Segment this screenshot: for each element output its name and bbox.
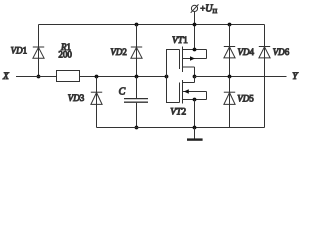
svg-text:200: 200 bbox=[58, 50, 72, 60]
wire: VD5 branch vertical bbox=[229, 77, 231, 128]
wire: power feed vertical to VT1 drain bbox=[194, 12, 196, 50]
transistor VT1 bbox=[180, 47, 207, 77]
svg-text:+UП: +UП bbox=[200, 3, 217, 15]
svg-text:C: C bbox=[119, 86, 126, 97]
wire: bottom rail bbox=[97, 127, 265, 129]
node: gate drive junction on X line bbox=[165, 75, 169, 79]
wire: Y output line bbox=[195, 76, 287, 78]
svg-text:VD6: VD6 bbox=[273, 47, 290, 57]
wire: VD4 branch vertical bbox=[229, 25, 231, 77]
power terminal +Up bbox=[191, 4, 199, 12]
node: X input junction bbox=[37, 75, 41, 79]
node: VT1 source / VT2 drain / Y junction bbox=[193, 75, 197, 79]
wire: X line to capacitor top plate bbox=[136, 77, 138, 99]
svg-text:VD3: VD3 bbox=[68, 93, 85, 103]
svg-text:X: X bbox=[2, 72, 10, 82]
diode VD5 bbox=[224, 92, 235, 104]
node: VT2 source junction bbox=[193, 98, 197, 102]
node: VD3 junction bbox=[95, 75, 99, 79]
node: ground junction bbox=[193, 126, 197, 130]
wire: VD2 branch vertical bbox=[136, 25, 138, 77]
diode VD2 bbox=[131, 47, 142, 58]
svg-text:VT2: VT2 bbox=[170, 108, 186, 118]
svg-text:VT1: VT1 bbox=[172, 36, 188, 46]
diode VD1 bbox=[33, 47, 44, 58]
node: VD4/VD5 Y-line junction bbox=[228, 75, 232, 79]
resistor R1 bbox=[57, 71, 80, 82]
svg-text:VD1: VD1 bbox=[11, 46, 28, 56]
wire: gate lead to VT2 bbox=[167, 77, 180, 103]
wire: VT2 source to bottom rail bbox=[194, 100, 196, 128]
node: capacitor bottom rail junction bbox=[135, 126, 139, 130]
node: VD2 top bus junction bbox=[135, 23, 139, 27]
diode VD4 bbox=[224, 47, 235, 58]
capacitor C bbox=[124, 99, 148, 103]
node: VD4 top bus junction bbox=[228, 23, 232, 27]
wire: top supply bus bbox=[39, 24, 265, 26]
wire: X line from R1 to gate node bbox=[80, 76, 167, 78]
transistor VT2 bbox=[180, 77, 207, 104]
ground bbox=[187, 128, 203, 140]
diode VD6 bbox=[259, 47, 270, 58]
node: VT1 drain junction bbox=[193, 48, 197, 52]
wire: capacitor bottom plate to bottom rail bbox=[136, 103, 138, 128]
wire: gate lead to VT1 bbox=[167, 50, 180, 77]
wire: VD6 branch vertical (right rail) bbox=[264, 25, 266, 128]
svg-text:Y: Y bbox=[292, 72, 299, 82]
wire: VD1 branch vertical bbox=[38, 25, 40, 77]
svg-text:VD5: VD5 bbox=[237, 93, 254, 103]
diode VD3 bbox=[91, 92, 102, 104]
wire: X input lead bbox=[16, 76, 57, 78]
node: power bus junction bbox=[193, 23, 197, 27]
node: VD2/C/X-line junction bbox=[135, 75, 139, 79]
svg-text:VD4: VD4 bbox=[238, 47, 255, 57]
svg-text:VD2: VD2 bbox=[110, 47, 127, 57]
wire: VD3 branch vertical bbox=[96, 77, 98, 128]
